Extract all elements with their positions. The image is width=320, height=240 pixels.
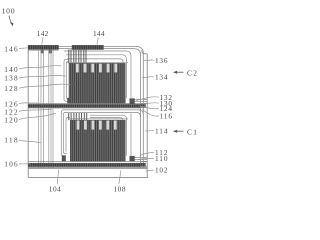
outer box top-right step xyxy=(142,50,147,54)
leader 108 xyxy=(119,170,121,184)
svg-text:114: 114 xyxy=(155,126,168,135)
leader 138 xyxy=(19,75,66,78)
svg-text:128: 128 xyxy=(4,84,18,93)
slot tint C2 xyxy=(76,64,117,73)
svg-text:146: 146 xyxy=(4,45,18,54)
svg-text:100: 100 xyxy=(2,7,15,16)
C1 via bars xyxy=(69,113,87,120)
C1 left wrap layers xyxy=(66,118,70,152)
leader 140 xyxy=(19,66,62,69)
slot tint C1 xyxy=(77,121,117,130)
leader 132 xyxy=(136,97,159,101)
outer box right edge xyxy=(146,54,148,178)
arrow C2 xyxy=(173,68,197,77)
svg-text:106: 106 xyxy=(4,160,18,169)
top hatched band segment 1 (146) xyxy=(28,45,58,49)
C2 left wrap layers xyxy=(66,62,69,100)
leader 144 xyxy=(97,38,98,45)
leader 114 xyxy=(145,129,154,132)
leader 112 xyxy=(140,152,154,155)
C2 right wrap layers xyxy=(66,55,127,98)
C2 bottom plate band xyxy=(28,102,147,104)
leader 134 xyxy=(142,76,154,79)
svg-text:142: 142 xyxy=(37,29,49,38)
outer box bottom edge xyxy=(28,176,148,178)
C2 left contact pad xyxy=(67,98,71,104)
leader 120 xyxy=(19,114,56,120)
leader 146 xyxy=(19,47,28,50)
leader 136 xyxy=(144,59,154,62)
arrow for 100 xyxy=(9,16,11,23)
arrowhead of 128 leader xyxy=(70,83,75,86)
top hatched band segment 2 xyxy=(72,45,104,49)
leader 110 xyxy=(138,158,154,159)
C2 comb boundary line xyxy=(67,61,129,63)
C1 bottom plate band xyxy=(28,160,147,162)
leader 128 xyxy=(19,84,71,88)
svg-text:138: 138 xyxy=(4,74,18,83)
svg-text:134: 134 xyxy=(155,73,168,82)
leader 126 xyxy=(19,102,39,105)
via stubs under top band xyxy=(41,49,44,53)
svg-text:144: 144 xyxy=(93,29,105,38)
C1 left contact pad xyxy=(62,155,66,161)
leader 106 xyxy=(19,163,31,165)
leader 102 xyxy=(146,170,154,171)
svg-text:118: 118 xyxy=(4,136,18,145)
leader 142 xyxy=(42,38,43,45)
leader 124 xyxy=(140,106,159,109)
C2 block (top electrode, hatched) xyxy=(69,63,125,103)
svg-text:140: 140 xyxy=(4,65,18,74)
C1 top band lines wrapping right xyxy=(64,112,141,153)
outer box left edge xyxy=(27,46,29,178)
arrow C1 xyxy=(173,127,197,136)
svg-text:104: 104 xyxy=(49,185,61,194)
C1 right wrap layers xyxy=(90,118,123,156)
svg-text:110: 110 xyxy=(155,154,168,163)
leader 118 xyxy=(19,140,41,143)
leader 116 xyxy=(142,109,159,116)
leader 122 xyxy=(19,109,52,111)
svg-text:120: 120 xyxy=(4,115,18,124)
svg-text:102: 102 xyxy=(155,166,168,175)
substrate top line 102 xyxy=(28,167,147,169)
tall left via bars xyxy=(38,50,40,168)
svg-text:116: 116 xyxy=(160,112,173,121)
leader 130 xyxy=(138,102,159,105)
C1 comb boundary line xyxy=(68,118,128,120)
top metal band lines wrapping to right side xyxy=(28,47,143,168)
C2 via bars xyxy=(69,50,86,64)
leader 104 xyxy=(57,169,59,184)
svg-text:136: 136 xyxy=(155,56,168,65)
C1 block (top electrode, hatched) xyxy=(70,120,125,161)
svg-text:108: 108 xyxy=(114,185,126,194)
C1 right contact pad xyxy=(130,156,135,161)
C2 right contact pad xyxy=(130,98,135,104)
